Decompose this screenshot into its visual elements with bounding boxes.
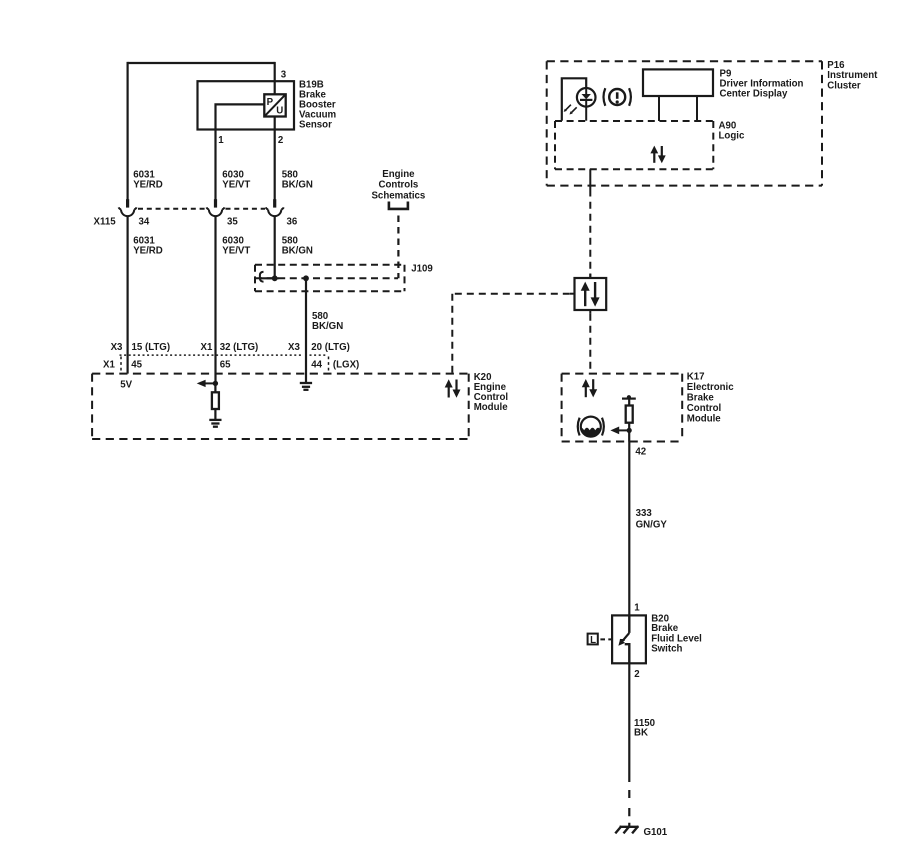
label A90 Logic <box>719 120 745 141</box>
K20 connector row 2 labels <box>103 360 359 371</box>
svg-text:Module: Module <box>474 402 509 413</box>
wire label 6030 YE/VT (above X115) <box>222 170 250 191</box>
indicator lamp loop wire <box>562 78 586 120</box>
svg-text:3: 3 <box>281 69 287 80</box>
junction dot splice 1 <box>272 275 278 281</box>
svg-text:32 (LTG): 32 (LTG) <box>220 342 259 353</box>
wire 333 GN/GY from K17 pin 42 to B20 <box>628 442 630 616</box>
svg-text:X115: X115 <box>94 217 117 228</box>
K17 brake warning icon circle <box>581 417 601 437</box>
K20 connector row 1 labels <box>111 342 350 353</box>
svg-text:GN/GY: GN/GY <box>636 519 668 530</box>
B20 level sensor L box <box>588 634 598 645</box>
svg-text:2: 2 <box>278 135 283 146</box>
svg-text:Cluster: Cluster <box>827 80 861 91</box>
indicator lamp strike marks <box>564 105 577 115</box>
svg-text:YE/VT: YE/VT <box>222 180 250 191</box>
off-page reference Engine Controls Schematics <box>371 169 425 202</box>
splice terminal hook <box>260 272 264 282</box>
svg-text:G101: G101 <box>644 827 668 838</box>
svg-text:2: 2 <box>634 669 639 680</box>
B20 level link inner dash <box>620 639 625 641</box>
wire 1150 BK from B20 pin 2 <box>628 663 630 782</box>
svg-text:44: 44 <box>311 360 322 371</box>
svg-text:J109: J109 <box>411 263 433 274</box>
instrument cluster P16 dashed box <box>547 61 822 185</box>
logic module A90 dashed box <box>555 121 713 169</box>
K17 internal junction dot <box>627 428 632 433</box>
svg-text:1: 1 <box>218 135 224 146</box>
wire label 1150 BK <box>634 718 655 739</box>
K17 internal signal arrow to lamp <box>619 429 630 431</box>
svg-text:X1: X1 <box>103 360 115 371</box>
splice wire segment <box>261 277 279 279</box>
svg-text:Schematics: Schematics <box>371 190 425 201</box>
warning telltale circle <box>609 89 625 105</box>
K20 internal junction dot pin 65 <box>213 381 218 386</box>
wire label 6031 YE/RD (above X115) <box>133 170 163 191</box>
B20 switch lever <box>623 633 630 641</box>
svg-text:333: 333 <box>636 508 653 519</box>
svg-text:Engine: Engine <box>382 169 415 180</box>
svg-text:36: 36 <box>287 217 298 228</box>
svg-text:BK/GN: BK/GN <box>282 245 313 256</box>
B20 level dashed link <box>600 638 612 640</box>
P9 leg left <box>658 96 660 121</box>
svg-text:Controls: Controls <box>378 180 418 191</box>
wire top rail from pin 3 loop <box>128 62 275 64</box>
K20 internal resistor <box>214 383 216 392</box>
K17 brake warning icon parentheses <box>578 418 604 436</box>
sensor B19B box <box>198 81 295 129</box>
K20 connector dashed end tick right <box>328 357 330 372</box>
svg-text:L: L <box>590 635 596 646</box>
K20 internal signal arrow <box>205 382 215 384</box>
indicator lamp LED triangle <box>585 88 587 94</box>
wire pin 2 low reference down <box>274 116 276 200</box>
A90 serial data arrows <box>650 146 665 164</box>
svg-text:45: 45 <box>131 360 142 371</box>
label P9 Driver Information Center Display <box>720 69 804 100</box>
svg-text:Center Display: Center Display <box>720 89 788 100</box>
label K20 Engine Control Module <box>474 372 509 413</box>
warning telltale exclamation <box>616 92 619 99</box>
svg-text:BK/GN: BK/GN <box>312 321 343 332</box>
svg-text:34: 34 <box>139 217 150 228</box>
dashed wire to ground <box>628 790 630 827</box>
svg-text:65: 65 <box>220 360 231 371</box>
K20 connector dashed end tick left <box>120 357 122 372</box>
svg-text:Brake: Brake <box>687 393 715 404</box>
K20 internal ground (pin 65 path) <box>209 420 221 427</box>
svg-text:35: 35 <box>227 217 238 228</box>
connector X115 pin 35 <box>207 199 225 216</box>
dashed serial data wire P16 to gateway box <box>589 202 591 278</box>
label K17 Electronic Brake Control Module <box>687 372 734 425</box>
module K20 dashed box <box>92 374 469 439</box>
K17 serial data arrows <box>582 379 597 397</box>
svg-text:1: 1 <box>634 602 640 613</box>
connector dashed link 35-36 <box>226 208 266 210</box>
svg-text:BK/GN: BK/GN <box>282 180 313 191</box>
K20 serial data arrows <box>445 379 461 397</box>
junction dot splice 2 <box>303 275 309 281</box>
B20 switch contact wire in <box>628 615 630 633</box>
svg-text:X3: X3 <box>111 342 123 353</box>
display P9 box <box>643 69 713 96</box>
wire 6031 from X115-34 to K20 pin 45 <box>126 216 128 374</box>
K17 pull-up resistor <box>626 406 633 423</box>
P9 leg right <box>696 96 698 121</box>
wire 580 from X115-36 to splice J109 <box>274 216 276 278</box>
label B20 Brake Fluid Level Switch <box>651 614 702 655</box>
pressure transducer P/U symbol <box>264 94 285 116</box>
connector dashed link 34-35 <box>138 208 207 210</box>
svg-text:YE/VT: YE/VT <box>222 245 250 256</box>
wire label 6030 YE/VT (below X115) <box>222 236 250 257</box>
wire 580 from J109 to K20 pin 44 <box>305 278 307 383</box>
warning telltale parentheses <box>604 88 631 106</box>
dashed serial data wire gateway to K20 <box>452 293 570 295</box>
off-page bracket <box>389 202 408 209</box>
svg-text:Switch: Switch <box>651 644 682 655</box>
wire pin 3 vertical into sensor <box>274 62 276 95</box>
svg-text:Module: Module <box>687 414 722 425</box>
svg-text:U: U <box>276 105 283 116</box>
svg-text:(LGX): (LGX) <box>333 360 359 371</box>
indicator lamp circle <box>577 88 596 107</box>
serial data gateway box <box>570 274 606 314</box>
dashed wire from off-page reference into J109 <box>397 216 399 279</box>
K20 internal ground (pin 44 path) <box>300 383 312 390</box>
wire pin 1 signal from P/U to X115 pin 35 <box>216 104 265 200</box>
wire label 580 BK/GN (below X115) <box>282 236 313 257</box>
svg-text:YE/RD: YE/RD <box>133 245 163 256</box>
svg-text:20 (LTG): 20 (LTG) <box>311 342 350 353</box>
svg-text:Electronic: Electronic <box>687 382 734 393</box>
svg-text:P: P <box>267 97 274 108</box>
svg-text:Logic: Logic <box>719 130 745 141</box>
svg-text:Control: Control <box>687 403 721 414</box>
svg-text:K17: K17 <box>687 372 705 383</box>
svg-text:5V: 5V <box>120 380 132 391</box>
ground G101 <box>615 826 638 833</box>
junction block J109 dashed box <box>255 265 405 291</box>
dashed serial data wire gateway to K17 <box>589 314 591 374</box>
svg-text:X3: X3 <box>288 342 300 353</box>
svg-text:BK: BK <box>634 728 648 739</box>
svg-text:YE/RD: YE/RD <box>133 180 163 191</box>
svg-text:42: 42 <box>635 446 646 457</box>
switch B20 box <box>612 615 646 663</box>
svg-text:Sensor: Sensor <box>299 120 332 131</box>
svg-text:X1: X1 <box>201 342 213 353</box>
K17 pull-up supply bar <box>622 398 636 400</box>
connector X115 pin 34 <box>119 199 137 216</box>
J109 internal dashed bus <box>255 277 398 279</box>
wire 6030 from X115-35 to K20 pin 65 <box>214 216 216 383</box>
svg-text:15 (LTG): 15 (LTG) <box>132 342 171 353</box>
label P16 Instrument Cluster <box>827 60 878 91</box>
wire left branch 6031 down to X115 pin 34 <box>126 62 128 200</box>
B20 switch contact step <box>625 644 630 663</box>
wire label 580 BK/GN (below J109) <box>312 311 343 332</box>
wire label 580 BK/GN (above X115) <box>282 170 313 191</box>
K20 connector dotted line <box>120 354 303 356</box>
wire label 6031 YE/RD (below X115) <box>133 236 163 257</box>
connector X115 pin 36 <box>266 199 284 216</box>
module K17 dashed box <box>562 374 683 442</box>
wire label 333 GN/GY <box>636 508 668 530</box>
wire from A90 logic down (solid stub) <box>589 169 591 196</box>
component label B19B Brake Booster Vacuum Sensor <box>299 80 337 131</box>
